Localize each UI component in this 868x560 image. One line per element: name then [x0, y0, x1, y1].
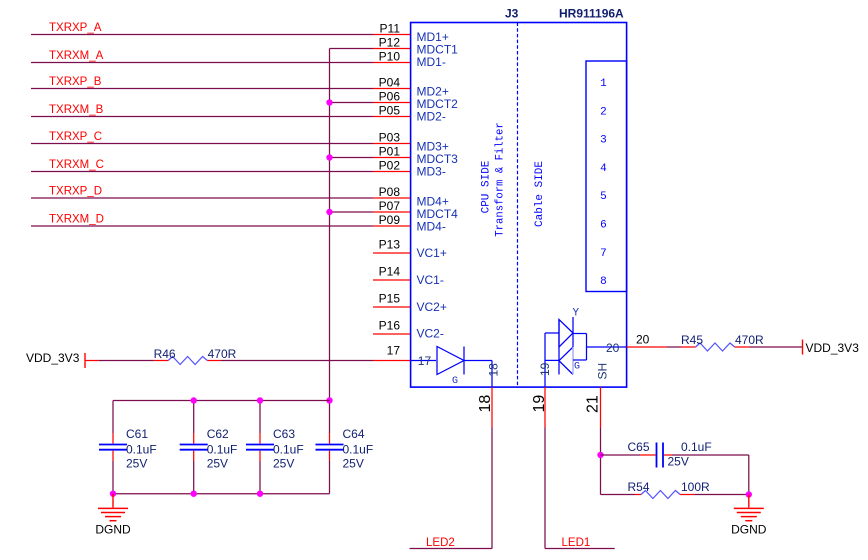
- pin P04 stub: [373, 88, 411, 90]
- pin P13 stub: [373, 252, 411, 254]
- svg-text:MD4-: MD4-: [417, 220, 446, 234]
- wire cap top rail: [113, 400, 330, 402]
- pin P10 number: [379, 50, 401, 64]
- wire net TXRXP_D: [31, 197, 373, 199]
- label 25V (C65): [668, 455, 689, 469]
- svg-text:4: 4: [600, 163, 607, 175]
- label 0.1uF (C64): [343, 443, 374, 457]
- svg-text:P12: P12: [379, 36, 401, 50]
- pin 19 number (rotated): [531, 395, 548, 413]
- pin name VC1-: [417, 273, 444, 287]
- svg-text:G: G: [452, 376, 458, 387]
- svg-text:P08: P08: [379, 185, 401, 199]
- ground DGND left: [98, 494, 128, 521]
- pin P12 number: [379, 36, 401, 50]
- junction top rail x=260: [257, 397, 263, 403]
- net label TXRXP_A: [49, 22, 102, 34]
- wire net TXRXM_C: [31, 171, 373, 173]
- svg-text:TXRXP_C: TXRXP_C: [49, 131, 102, 143]
- pin P12 stub: [373, 48, 411, 50]
- wire bus to P01: [330, 157, 374, 159]
- pin name 18 (inside, rotated): [487, 363, 501, 377]
- label C65: [628, 440, 650, 454]
- pin 17 internal wire: [411, 360, 437, 362]
- pin P03 stub: [373, 143, 411, 145]
- junction on bus y=102.5: [326, 99, 332, 105]
- svg-text:P01: P01: [379, 145, 401, 159]
- label 0.1uF (C63): [273, 443, 304, 457]
- pin P14 stub: [373, 279, 411, 281]
- resistor R46: [154, 357, 221, 365]
- pin name MDCT2: [417, 97, 459, 111]
- svg-text:VC2-: VC2-: [417, 327, 444, 341]
- pin P03 number: [379, 131, 401, 145]
- svg-text:P09: P09: [379, 213, 401, 227]
- RJ45 pin number 7: [600, 248, 607, 260]
- pin 21 number (rotated): [585, 395, 602, 413]
- LED Y (upper diode): [559, 317, 573, 347]
- wire diode to pin 18: [464, 361, 492, 388]
- label Cable SIDE: [534, 161, 546, 227]
- svg-text:Y: Y: [573, 308, 580, 320]
- svg-text:1: 1: [600, 78, 607, 90]
- capacitor C65: [640, 443, 672, 468]
- capacitor C63: [246, 401, 274, 494]
- label Y: [573, 308, 580, 320]
- svg-text:R46: R46: [154, 347, 176, 361]
- wire bus to P07: [330, 211, 374, 213]
- svg-text:5: 5: [600, 191, 607, 203]
- label C63: [273, 427, 295, 441]
- svg-text:100R: 100R: [681, 480, 710, 494]
- pin P05 stub: [373, 116, 411, 118]
- pin 17 stub: [373, 360, 411, 362]
- pin P10 stub: [373, 62, 411, 64]
- wire C65 left: [601, 454, 641, 456]
- wire net TXRXP_C: [31, 143, 373, 145]
- capacitor C61: [99, 401, 127, 494]
- net label TXRXM_A: [49, 50, 104, 62]
- svg-text:DGND: DGND: [731, 523, 767, 537]
- svg-text:J3: J3: [505, 7, 519, 21]
- wire bus to P06: [330, 102, 374, 104]
- wire pin21 down: [600, 428, 602, 495]
- pin P01 stub: [373, 157, 411, 159]
- svg-text:20: 20: [636, 333, 650, 347]
- pin name MDCT1: [417, 43, 459, 57]
- svg-text:LED1: LED1: [562, 537, 591, 549]
- wire bus to P12: [330, 48, 374, 50]
- svg-text:C63: C63: [273, 427, 295, 441]
- pin name VC1+: [417, 246, 447, 260]
- svg-text:C61: C61: [126, 427, 148, 441]
- svg-text:20: 20: [606, 341, 620, 355]
- pin 18 stub: [491, 387, 493, 428]
- pin 18 number (rotated): [477, 395, 494, 413]
- net label TXRXP_B: [49, 76, 102, 88]
- pin name MD2+: [417, 85, 449, 99]
- net label TXRXM_B: [49, 104, 104, 116]
- svg-text:TXRXM_B: TXRXM_B: [49, 104, 104, 116]
- svg-text:P11: P11: [380, 22, 401, 36]
- RJ45 pin number 6: [600, 220, 607, 232]
- pin P11 stub: [373, 34, 411, 36]
- capacitor C64: [316, 433, 344, 494]
- pin P08 stub: [373, 197, 411, 199]
- pin name 20 (inside): [606, 341, 620, 355]
- pin name MD3-: [417, 165, 446, 179]
- svg-text:VC1-: VC1-: [417, 273, 444, 287]
- junction top rail x=193.7: [191, 397, 197, 403]
- label J3: [505, 7, 519, 21]
- dual LED right lead (pin 20): [573, 334, 627, 361]
- svg-text:C62: C62: [207, 427, 229, 441]
- LED G diode (internal): [437, 347, 464, 375]
- wire net TXRXP_A: [31, 34, 373, 36]
- ground DGND right: [734, 495, 764, 521]
- label 25V (C61): [126, 457, 147, 471]
- junction pin21 / C65: [597, 452, 603, 458]
- net label LED2: [426, 537, 455, 549]
- label R54: [628, 480, 650, 494]
- pin P09 stub: [373, 225, 411, 227]
- pin name 19 (inside, rotated): [538, 362, 552, 376]
- svg-text:TXRXP_A: TXRXP_A: [49, 22, 102, 34]
- svg-text:G: G: [574, 361, 580, 372]
- svg-text:18: 18: [487, 363, 501, 377]
- label 0.1uF (C61): [126, 443, 157, 457]
- wire pin18 to LED2: [410, 428, 493, 549]
- wire pin19 to LED1: [545, 428, 615, 549]
- svg-text:25V: 25V: [273, 457, 294, 471]
- pin P08 number: [379, 185, 401, 199]
- pin name VC2+: [417, 300, 447, 314]
- wire net TXRXP_B: [31, 88, 373, 90]
- resistor R54: [635, 491, 694, 499]
- wire pin20 to R45: [667, 346, 681, 348]
- svg-text:19: 19: [531, 395, 548, 413]
- svg-text:CPU SIDE: CPU SIDE: [481, 160, 493, 213]
- wire R46 to pin 17: [221, 360, 373, 362]
- pin P02 number: [379, 159, 401, 173]
- dual LED left lead (pin 19): [545, 333, 559, 387]
- svg-text:0.1uF: 0.1uF: [207, 443, 238, 457]
- junction on bus y=157.5: [326, 154, 332, 160]
- svg-text:SH: SH: [596, 363, 610, 380]
- svg-text:P14: P14: [379, 265, 401, 279]
- svg-text:P16: P16: [379, 319, 401, 333]
- svg-text:C65: C65: [628, 440, 650, 454]
- svg-text:C64: C64: [343, 427, 365, 441]
- label CPU SIDE: [481, 160, 493, 213]
- pin P06 stub: [373, 102, 411, 104]
- pin P01 number: [379, 145, 401, 159]
- label Transform &amp; Filter: [495, 122, 507, 236]
- svg-text:LED2: LED2: [426, 537, 455, 549]
- svg-text:2: 2: [600, 106, 607, 118]
- pin P16 stub: [373, 333, 411, 335]
- label HR911196A: [559, 7, 624, 21]
- svg-text:P13: P13: [379, 238, 401, 252]
- RJ45 pin number 2: [600, 106, 607, 118]
- label R45: [681, 333, 703, 347]
- wire net TXRXM_D: [31, 225, 373, 227]
- pin P16 number: [379, 319, 401, 333]
- svg-text:TXRXP_B: TXRXP_B: [49, 76, 102, 88]
- label C61: [126, 427, 148, 441]
- svg-text:25V: 25V: [126, 457, 147, 471]
- RJ45 pin number 3: [600, 135, 607, 147]
- svg-text:VC2+: VC2+: [417, 300, 447, 314]
- svg-text:R54: R54: [628, 480, 650, 494]
- svg-text:P10: P10: [379, 50, 401, 64]
- svg-text:18: 18: [477, 395, 494, 413]
- wire cap bottom rail: [113, 493, 330, 495]
- pin 21 stub: [600, 387, 602, 428]
- svg-text:0.1uF: 0.1uF: [343, 443, 374, 457]
- label DGND left: [95, 523, 131, 537]
- pin name VC2-: [417, 327, 444, 341]
- label 25V (C64): [343, 457, 364, 471]
- pin P07 stub: [373, 211, 411, 213]
- resistor R45: [681, 343, 749, 351]
- svg-text:470R: 470R: [735, 333, 764, 347]
- junction on bus y=212: [326, 209, 332, 215]
- pin P13 number: [379, 238, 401, 252]
- RJ45 inner box: [586, 61, 627, 292]
- svg-text:P05: P05: [379, 104, 401, 118]
- svg-text:P02: P02: [379, 159, 401, 173]
- RJ45 pin number 8: [600, 276, 607, 288]
- label G (internal diode): [452, 376, 458, 387]
- label C64: [343, 427, 365, 441]
- label 0.1uF (C62): [207, 443, 238, 457]
- port VDD_3V3 left: [26, 351, 85, 368]
- svg-text:P06: P06: [379, 90, 401, 104]
- label DGND right: [731, 523, 767, 537]
- svg-text:MD2-: MD2-: [417, 110, 446, 124]
- RJ45 pin number 1: [600, 78, 607, 90]
- net label LED1: [562, 537, 591, 549]
- pin P15 number: [379, 292, 401, 306]
- pin P11 number: [380, 22, 401, 36]
- pin 20 stub: [627, 346, 668, 348]
- svg-text:0.1uF: 0.1uF: [273, 443, 304, 457]
- svg-text:R45: R45: [681, 333, 703, 347]
- pin 20 number: [636, 333, 650, 347]
- port pin red segment: [85, 360, 99, 362]
- svg-text:TXRXM_A: TXRXM_A: [49, 50, 104, 62]
- svg-text:TXRXM_C: TXRXM_C: [49, 159, 104, 171]
- pin name MD4-: [417, 220, 446, 234]
- svg-text:21: 21: [585, 395, 602, 413]
- svg-text:Transform & Filter: Transform & Filter: [495, 122, 507, 236]
- pin 19 stub: [544, 387, 546, 428]
- label 470R (R45): [735, 333, 764, 347]
- svg-text:MD1-: MD1-: [417, 55, 446, 69]
- label C62: [207, 427, 229, 441]
- pin name MD2-: [417, 110, 446, 124]
- svg-text:3: 3: [600, 135, 607, 147]
- wire C65 right: [672, 455, 749, 495]
- port VDD_3V3 right: [803, 340, 860, 356]
- pin P14 number: [379, 265, 401, 279]
- svg-text:HR911196A: HR911196A: [559, 7, 624, 21]
- wire center-tap bus vertical: [329, 49, 331, 434]
- pin P06 number: [379, 90, 401, 104]
- svg-text:Cable SIDE: Cable SIDE: [534, 161, 546, 227]
- label R46: [154, 347, 176, 361]
- wire net TXRXM_B: [31, 116, 373, 118]
- svg-text:25V: 25V: [207, 457, 228, 471]
- pin name MDCT3: [417, 152, 459, 166]
- svg-text:0.1uF: 0.1uF: [126, 443, 157, 457]
- wire R45 to VDD_3V3: [749, 346, 803, 348]
- svg-text:6: 6: [600, 220, 607, 232]
- svg-text:DGND: DGND: [95, 523, 131, 537]
- pin 17 number: [387, 344, 401, 358]
- RJ45 pin number 4: [600, 163, 607, 175]
- pin name MD3+: [417, 140, 449, 154]
- junction bottom rail x=193.7: [191, 491, 197, 497]
- label 25V (C62): [207, 457, 228, 471]
- label 470R (R46): [208, 347, 237, 361]
- pin P02 stub: [373, 171, 411, 173]
- divider dashed line: [517, 23, 519, 388]
- label G (dual LED): [574, 361, 580, 372]
- wire R54 right: [694, 494, 749, 496]
- svg-text:P03: P03: [379, 131, 401, 145]
- svg-text:470R: 470R: [208, 347, 237, 361]
- pin name MDCT4: [417, 207, 459, 221]
- wire R54 left: [601, 494, 636, 496]
- svg-text:P04: P04: [379, 76, 401, 90]
- pin name 17 (inside): [418, 354, 432, 368]
- net label TXRXP_D: [49, 186, 102, 198]
- svg-text:TXRXP_D: TXRXP_D: [49, 186, 102, 198]
- svg-text:VDD_3V3: VDD_3V3: [26, 351, 80, 365]
- junction R54/C65/DGND: [746, 491, 752, 497]
- wire net TXRXM_A: [31, 62, 373, 64]
- pin name MD1-: [417, 55, 446, 69]
- net label TXRXM_D: [49, 214, 104, 226]
- svg-text:19: 19: [538, 362, 552, 376]
- label 100R (R54): [681, 480, 710, 494]
- junction on bus y=400.5: [326, 397, 332, 403]
- pin P05 number: [379, 104, 401, 118]
- pin P09 number: [379, 213, 401, 227]
- wire VDD_3V3 to R46: [99, 360, 154, 362]
- label 0.1uF (C65): [681, 440, 712, 454]
- pin name SH (rotated): [596, 363, 610, 380]
- svg-text:17: 17: [387, 344, 401, 358]
- svg-text:TXRXM_D: TXRXM_D: [49, 214, 104, 226]
- junction bottom rail x=113: [110, 491, 116, 497]
- net label TXRXP_C: [49, 131, 102, 143]
- svg-text:P15: P15: [379, 292, 401, 306]
- svg-text:25V: 25V: [343, 457, 364, 471]
- svg-text:8: 8: [600, 276, 607, 288]
- pin P07 number: [379, 199, 401, 213]
- label 25V (C63): [273, 457, 294, 471]
- connector J3 outline: [411, 23, 627, 388]
- svg-text:P07: P07: [379, 199, 401, 213]
- net label TXRXM_C: [49, 159, 104, 171]
- pin P15 stub: [373, 306, 411, 308]
- LED G (lower diode): [559, 320, 573, 375]
- pin name MD4+: [417, 195, 449, 209]
- junction bottom rail x=260: [257, 491, 263, 497]
- svg-text:7: 7: [600, 248, 607, 260]
- svg-text:VC1+: VC1+: [417, 246, 447, 260]
- svg-text:25V: 25V: [668, 455, 689, 469]
- svg-text:0.1uF: 0.1uF: [681, 440, 712, 454]
- pin name MD1+: [417, 30, 449, 44]
- pin P04 number: [379, 76, 401, 90]
- svg-text:17: 17: [418, 354, 432, 368]
- RJ45 pin number 5: [600, 191, 607, 203]
- svg-text:VDD_3V3: VDD_3V3: [806, 341, 860, 355]
- capacitor C62: [180, 401, 208, 494]
- svg-text:MD3-: MD3-: [417, 165, 446, 179]
